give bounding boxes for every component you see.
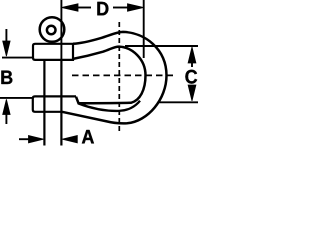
dimension C top extension line [125,45,198,47]
dimension B top extension line [2,57,34,59]
dimension A right arrow [62,136,77,143]
dimension C bottom extension line [158,101,198,103]
dimension D line right [113,7,129,9]
bow outer profile [62,32,167,124]
dimension D extension line right [143,0,145,58]
dimension D right arrow [128,4,144,11]
dimension B bottom stem [5,113,7,124]
dimension A line left [19,138,31,140]
dimension B bottom extension line [0,97,34,99]
dimension B top arrow [3,41,10,56]
label D [97,2,108,15]
upper ear rectangle [33,44,73,60]
bow vertical centerline [118,22,120,131]
dimension C bottom arrow [188,85,196,101]
pin shaft right edge [60,60,62,146]
dimension D extension line left [60,0,62,60]
label B [1,71,12,84]
dimension A left arrow [29,136,44,143]
dimension C top stem [191,61,193,67]
lower ear [33,96,76,111]
pin head outer circle [40,17,65,42]
pin shaft left edge [43,60,45,146]
label C [185,70,197,84]
dimension B bottom arrow [3,99,10,114]
bow horizontal centerline [72,74,176,76]
pin head inner circle [47,26,56,35]
dimension C bottom stem [191,85,193,88]
bow inner profile [73,47,146,104]
dimension C top arrow [188,47,196,63]
dimension B top stem [5,29,7,42]
dimension D left arrow [61,4,78,11]
dimension D line left [77,7,91,9]
label A [82,130,94,143]
throat far-side edge [79,101,141,111]
